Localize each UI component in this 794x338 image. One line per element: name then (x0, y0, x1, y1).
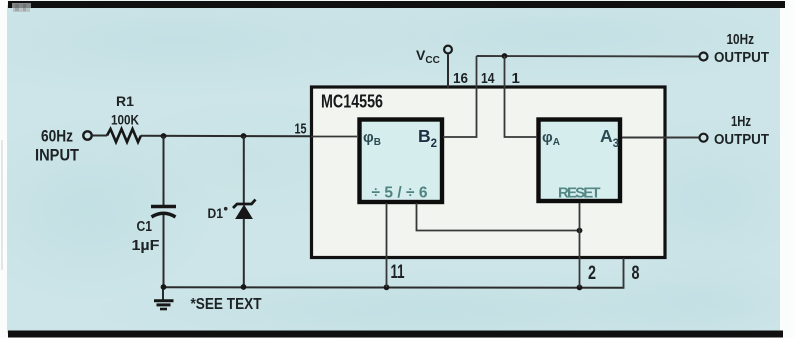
diode D1 zener (233, 200, 256, 219)
svg-text:100K: 100K (111, 112, 139, 128)
left margin (0, 0, 7, 338)
svg-text:16: 16 (453, 70, 468, 87)
svg-text:OUTPUT: OUTPUT (714, 50, 769, 66)
wire pin 1 (505, 56, 538, 137)
svg-text:D1: D1 (208, 205, 224, 221)
capacitor C1 (151, 207, 176, 218)
wire C1 to ground rail (163, 215, 165, 287)
svg-text:10Hz: 10Hz (727, 31, 755, 48)
wire R1 to pin 15 (141, 135, 310, 138)
wire D1 to ground rail (243, 219, 245, 288)
svg-text:1Hz: 1Hz (731, 113, 751, 130)
wire pin 2 (579, 203, 581, 287)
node reset join (577, 228, 583, 234)
top-left smudge (12, 3, 31, 12)
node rail-C1 (161, 284, 167, 290)
wire pin 8 (623, 258, 625, 288)
ground (154, 287, 174, 309)
wire D1 branch (243, 136, 245, 204)
svg-text:14: 14 (481, 70, 495, 87)
svg-text:*SEE TEXT: *SEE TEXT (191, 296, 262, 313)
svg-text:C1: C1 (137, 219, 153, 235)
svg-text:R1: R1 (116, 93, 134, 109)
Vcc terminal (444, 46, 452, 54)
wire A3 out (622, 137, 700, 139)
node rail-pin2 (577, 285, 583, 291)
label 60Hz INPUT (35, 127, 80, 165)
svg-text:OUTPUT: OUTPUT (714, 132, 769, 148)
node rail-D1 (241, 284, 247, 290)
input terminal (83, 131, 91, 139)
svg-text:11: 11 (391, 262, 405, 283)
resistor R1 (107, 129, 141, 142)
svg-text:1µF: 1µF (132, 237, 160, 254)
svg-text:1: 1 (512, 70, 520, 87)
svg-text:RESET: RESET (558, 185, 601, 202)
svg-text:MC14556: MC14556 (321, 91, 383, 112)
scan speck (224, 207, 228, 211)
node C1 junction (161, 133, 167, 139)
divider block A (539, 120, 621, 202)
svg-text:8: 8 (632, 263, 640, 284)
wire C1 branch (163, 136, 165, 205)
svg-text:15: 15 (295, 121, 307, 138)
wire pin 11 (386, 203, 388, 287)
wire B2 out (443, 56, 477, 137)
svg-text:2: 2 (588, 263, 596, 284)
svg-text:INPUT: INPUT (35, 146, 80, 165)
node D1 junction (241, 133, 247, 139)
node pin1 tap (502, 53, 508, 59)
wire input to R1 (92, 135, 107, 137)
wire reset link (417, 203, 580, 231)
op IC box MC14556 (312, 87, 666, 258)
divider block B (360, 120, 443, 203)
top scan bar (8, 1, 785, 8)
node rail-pin11 (384, 284, 390, 290)
svg-text:÷5/÷6: ÷5/÷6 (372, 185, 428, 202)
right margin (780, 0, 794, 338)
10Hz terminal (700, 53, 708, 61)
wire Vcc pin16 (447, 54, 449, 89)
bottom scan bar (8, 331, 783, 338)
1Hz terminal (700, 134, 708, 142)
svg-text:60Hz: 60Hz (41, 127, 73, 146)
ground rail wire (163, 286, 624, 289)
wire top 10Hz (477, 55, 700, 58)
wire pin15 inside (311, 136, 357, 138)
left edge streak (1, 140, 3, 270)
